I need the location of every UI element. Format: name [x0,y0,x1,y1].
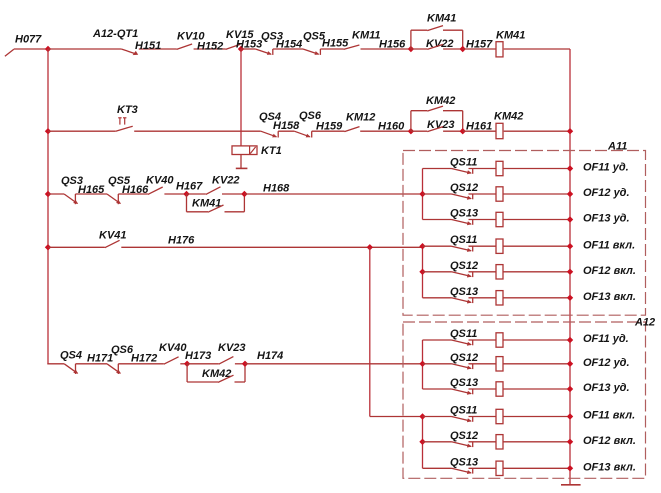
contact KV23 (row5) [187,357,245,365]
svg-text:QS13: QS13 [450,377,478,389]
svg-text:KM42: KM42 [494,111,523,123]
svg-text:KV22: KV22 [212,175,240,187]
svg-text:H156: H156 [379,39,406,51]
wire row3 to QS3 [48,193,64,195]
svg-text:KV41: KV41 [99,230,127,242]
wire H077 lead-in [5,49,48,56]
svg-text:QS4: QS4 [60,350,82,362]
wire KM42 branch (row5) [187,364,245,382]
node H167 [183,191,189,197]
contact QS3 (row1) [255,49,272,55]
node A12 feeder/H174 [419,361,425,367]
contact QS4 (row2) [261,131,278,137]
wire A12 feeder rows4-6 [422,417,424,469]
svg-text:QS12: QS12 [450,182,478,194]
svg-text:OF12 уд.: OF12 уд. [583,357,630,369]
svg-text:QS11: QS11 [450,157,477,169]
contact/coil A12 row QS12 OF12 уд. [423,357,574,371]
svg-text:KT3: KT3 [117,104,138,116]
svg-text:OF12 вкл.: OF12 вкл. [583,265,636,277]
wire row4 to KV41 [48,246,105,248]
contact/coil A12 row QS11 OF11 вкл. [423,409,574,423]
contact A12-QT1 [121,49,138,55]
contact KM41 (row3) [208,205,224,212]
contact/coil A12 row QS12 OF12 вкл. [423,435,574,449]
node row2/right-rail junction [567,128,573,134]
svg-text:KV23: KV23 [427,119,455,131]
svg-text:H155: H155 [322,38,349,50]
wire H171 [76,363,108,365]
coil KT1 [232,146,257,155]
contact KM12 [345,127,360,132]
contact KV41 [105,240,120,247]
svg-text:OF13 вкл.: OF13 вкл. [583,462,636,474]
node H174-left [242,361,248,367]
contact KV10 [177,44,193,49]
svg-text:OF11 вкл.: OF11 вкл. [583,410,635,422]
contact/coil A11 row QS11 OF11 вкл. [423,239,574,253]
ground terminator under KT1 [236,167,248,169]
svg-text:H154: H154 [276,39,302,51]
coil KM41 [496,42,503,57]
svg-text:OF13 вкл.: OF13 вкл. [583,291,636,303]
wire A11 feeder rows4-6 [422,246,424,298]
wire A11 feeder rows1-3 [422,169,424,220]
svg-text:H168: H168 [263,183,290,195]
wire H158 [278,130,294,132]
svg-text:QS13: QS13 [450,208,478,220]
wire H153 to QS3 [241,48,255,50]
svg-text:H077: H077 [15,34,42,46]
wire A12 branch vertical [370,247,423,416]
svg-text:H151: H151 [135,40,161,52]
svg-text:A12-QT1: A12-QT1 [92,28,138,40]
wire left rail (vertical) [47,49,49,364]
svg-text:KM41: KM41 [427,13,456,25]
wire KM41 branch (row1) [411,30,463,49]
wire KM42 branch (row2) [411,111,463,132]
wire KT3 to QS4 [134,130,261,132]
wire H159 [312,130,345,132]
contact/coil A11 row QS12 OF12 уд. [423,187,574,201]
node row4/left-rail junction [45,244,51,250]
contact/coil A11 row QS11 OF11 уд. [423,161,574,175]
wire H168 [244,193,422,195]
svg-text:OF13 уд.: OF13 уд. [583,382,630,394]
contact QS4 (row5) [64,364,78,374]
svg-text:KM42: KM42 [426,95,455,107]
svg-text:KV40: KV40 [146,175,174,187]
node A12 feeder row5 [419,439,425,445]
contact/coil A12 row QS13 OF13 уд. [423,382,574,396]
wire row1 to QT1 [48,48,121,50]
wire H161 [463,130,496,132]
wire H152 [194,48,226,50]
svg-text:H165: H165 [78,184,105,196]
wire H173 [180,363,187,365]
svg-text:H161: H161 [466,121,492,133]
wire H153 down to KT1 [240,49,242,146]
coil KM42 [496,123,503,138]
svg-text:H173: H173 [185,350,211,362]
contact/coil A11 row QS13 OF13 уд. [423,212,574,226]
svg-text:QS11: QS11 [450,234,477,246]
node parallel-right (row2) [460,128,466,134]
contact KM42 (row5) [218,375,234,382]
wire H155 [320,48,343,50]
wire H157 [463,48,496,50]
ground terminator bottom rail [561,484,581,486]
contact QS6 (row5) [107,364,121,374]
svg-text:H171: H171 [87,353,113,365]
svg-text:KM12: KM12 [346,112,375,124]
node A12 feeder row4 [419,413,425,419]
svg-text:H172: H172 [131,353,157,365]
contact KM41 (branch) [427,26,443,31]
node H168-left [241,191,247,197]
svg-text:A11: A11 [607,141,627,153]
svg-text:QS13: QS13 [450,286,478,298]
contact KT3 (time-delay) [116,118,133,131]
svg-text:H152: H152 [197,41,223,53]
contact KM11 [344,45,360,49]
svg-text:OF11 вкл.: OF11 вкл. [583,239,635,251]
contact KV22 (row3) [187,187,245,195]
wire KT1 to common [240,155,242,169]
svg-text:H176: H176 [168,235,195,247]
wire H165 [75,193,107,195]
contact KV22 (row1) [411,44,463,49]
contact KV23 (row2) [411,127,463,132]
contact KV40 (row3) [148,187,163,194]
node parallel-left (row2) [408,128,414,134]
svg-text:H157: H157 [466,39,493,51]
contact/coil A11 row QS13 OF13 вкл. [423,291,574,305]
svg-text:A12: A12 [634,317,655,329]
node row2/left-rail junction [45,128,51,134]
node parallel-right (row1) [460,46,466,52]
block A12 border [403,322,646,478]
wire A12 feeder rows1-3 [422,340,424,389]
node A11 feeder/H168 [419,191,425,197]
svg-text:KV40: KV40 [159,342,187,354]
node A11 feeder/H176 [419,243,425,249]
contact/coil A12 row QS13 OF13 вкл. [423,461,574,475]
node H173 [184,361,190,367]
wire right rail (vertical) [569,49,571,484]
wire row5 from left rail [47,363,64,365]
wire H151 [139,48,177,50]
svg-text:KM41: KM41 [496,30,525,42]
svg-text:KM11: KM11 [352,30,381,42]
svg-text:OF13 уд.: OF13 уд. [583,213,630,225]
svg-text:QS13: QS13 [450,456,478,468]
svg-text:OF11 уд.: OF11 уд. [583,333,629,345]
contact KV15 [226,44,241,49]
wire H172 [118,363,164,365]
node A11 feeder row5 [419,269,425,275]
svg-text:H174: H174 [257,350,283,362]
wire KM41 branch (row3) [187,194,245,212]
svg-text:QS12: QS12 [450,260,478,272]
svg-text:QS12: QS12 [450,430,478,442]
node H153 [238,46,244,52]
contact QS6 (row2) [294,131,311,137]
node row3/left-rail junction [45,191,51,197]
contact/coil A12 row QS11 OF11 уд. [423,333,574,347]
svg-text:H167: H167 [176,181,203,193]
node parallel-left (row1) [408,46,414,52]
contact QS5 (row1) [303,49,320,55]
svg-text:QS12: QS12 [450,352,478,364]
svg-text:H159: H159 [316,121,343,133]
node H176/A12 branch [367,244,373,250]
contact KV40 (row5) [164,357,179,364]
contact/coil A11 row QS12 OF12 вкл. [423,265,574,279]
wire H156 [361,48,411,50]
svg-text:KV23: KV23 [218,342,246,354]
svg-text:QS11: QS11 [450,328,477,340]
wire H154 [273,48,303,50]
svg-text:KT1: KT1 [261,145,282,157]
contact QS3 (row3) [64,194,78,204]
svg-text:OF12 уд.: OF12 уд. [583,187,630,199]
wire KM41 coil to right rail [504,48,570,50]
node row1/left-rail junction [45,46,51,52]
svg-text:OF12 вкл.: OF12 вкл. [583,435,636,447]
svg-text:QS11: QS11 [450,405,477,417]
wire H176 [121,246,422,248]
wire H160 [360,130,411,132]
block A11 border [403,151,646,316]
contact QS5 (row3) [107,194,121,204]
contact KM42 (branch) [427,106,443,111]
wire H174 [245,363,423,365]
wire H167 [164,193,186,195]
svg-text:OF11 уд.: OF11 уд. [583,162,629,174]
svg-text:H158: H158 [273,120,300,132]
svg-text:H160: H160 [378,121,405,133]
wire H166 [118,193,148,195]
wire row2 to KT3 [48,130,116,132]
wire KM42 coil to right rail [504,130,570,132]
